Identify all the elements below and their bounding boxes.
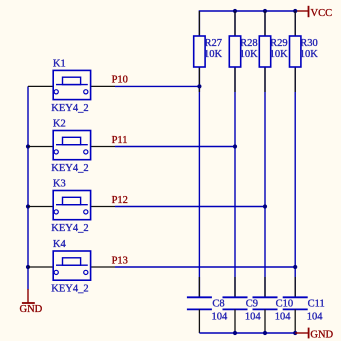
node P10 column 1 xyxy=(197,84,201,88)
svg-text:C9: C9 xyxy=(246,298,258,309)
svg-text:10K: 10K xyxy=(204,49,223,60)
node left bus K3 xyxy=(26,204,30,208)
resistor R29 xyxy=(259,11,288,92)
node left bus K4 xyxy=(26,265,30,269)
wire column 1 xyxy=(198,67,200,297)
wire top bus VCC xyxy=(199,11,295,36)
svg-text:10K: 10K xyxy=(300,49,319,60)
wire P13 xyxy=(115,266,295,268)
node bottom bus C9 xyxy=(233,331,237,335)
capacitor C10 xyxy=(253,277,294,333)
power GND right xyxy=(295,328,333,341)
svg-text:R29: R29 xyxy=(270,38,288,49)
svg-text:KEY4_2: KEY4_2 xyxy=(51,163,88,174)
svg-text:P10: P10 xyxy=(112,75,128,86)
svg-text:K2: K2 xyxy=(53,119,66,130)
svg-text:GND: GND xyxy=(20,304,43,315)
svg-text:R28: R28 xyxy=(240,38,258,49)
svg-text:104: 104 xyxy=(245,311,262,322)
resistor R30 xyxy=(290,11,319,92)
capacitor C11 xyxy=(283,277,325,333)
key K4 xyxy=(28,239,115,294)
node bottom bus C10 xyxy=(263,331,267,335)
svg-text:R30: R30 xyxy=(300,38,318,49)
wire column 3 xyxy=(264,11,266,297)
node P13 column 4 xyxy=(293,265,297,269)
svg-text:P13: P13 xyxy=(112,255,128,266)
node P12 column 3 xyxy=(263,204,267,208)
wire column 2 xyxy=(234,11,236,297)
svg-text:10K: 10K xyxy=(270,49,289,60)
svg-text:R27: R27 xyxy=(205,38,223,49)
svg-text:GND: GND xyxy=(310,329,333,340)
svg-text:10K: 10K xyxy=(240,49,259,60)
svg-text:KEY4_2: KEY4_2 xyxy=(51,223,88,234)
svg-text:K3: K3 xyxy=(53,179,66,190)
wire P10 xyxy=(115,85,199,87)
node P11 column 2 xyxy=(233,144,237,148)
svg-text:104: 104 xyxy=(275,311,292,322)
key K1 xyxy=(28,59,115,114)
svg-text:KEY4_2: KEY4_2 xyxy=(51,283,88,294)
node left bus K2 xyxy=(26,144,30,148)
capacitor C8 xyxy=(187,277,228,333)
resistor R27 xyxy=(194,11,223,92)
svg-text:K1: K1 xyxy=(53,59,66,70)
svg-text:P11: P11 xyxy=(112,135,128,146)
capacitor C9 xyxy=(223,277,262,333)
svg-text:104: 104 xyxy=(212,311,229,322)
key K3 xyxy=(28,179,115,234)
wire left bus xyxy=(27,86,29,289)
node top bus at R29 xyxy=(263,9,267,13)
wire P12 xyxy=(115,206,265,208)
power VCC xyxy=(295,6,332,19)
wire column 4 xyxy=(294,11,296,297)
node top bus at R28 xyxy=(233,9,237,13)
node top bus at R30 xyxy=(293,9,297,13)
svg-text:K4: K4 xyxy=(53,239,67,250)
wire P11 xyxy=(115,146,235,148)
wire bottom bus xyxy=(199,332,295,334)
svg-text:C10: C10 xyxy=(276,298,294,309)
svg-text:C11: C11 xyxy=(308,298,325,309)
svg-text:P12: P12 xyxy=(112,195,128,206)
svg-text:104: 104 xyxy=(307,311,324,322)
resistor R28 xyxy=(229,11,258,92)
svg-text:VCC: VCC xyxy=(311,8,333,19)
key K2 xyxy=(28,119,115,174)
svg-text:KEY4_2: KEY4_2 xyxy=(51,103,88,114)
svg-text:C8: C8 xyxy=(212,298,224,309)
node bottom bus C11 xyxy=(293,331,297,335)
power GND left xyxy=(20,289,43,315)
